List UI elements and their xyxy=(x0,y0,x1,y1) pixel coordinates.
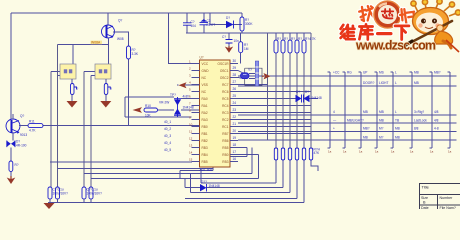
svg-text:11: 11 xyxy=(189,129,192,133)
wire D1 leads xyxy=(210,24,242,26)
svg-text:?: ? xyxy=(77,87,79,91)
svg-text:RB3: RB3 xyxy=(222,160,228,164)
svg-text:14: 14 xyxy=(189,150,193,154)
svg-text:R10: R10 xyxy=(145,104,151,108)
wire rbank col3 xyxy=(289,53,291,148)
svg-text:RC3: RC3 xyxy=(222,111,229,115)
svg-text:MB: MB xyxy=(414,81,419,85)
wire diode D8 line xyxy=(185,160,283,188)
wire bottom wrap d xyxy=(84,148,252,174)
power arrow right xyxy=(262,73,271,79)
pin 5 left NC xyxy=(189,87,207,94)
svg-text:21: 21 xyxy=(233,122,237,126)
svg-text:W08A: W08A xyxy=(91,41,101,45)
wire VDD drop to IC pin1 xyxy=(169,13,200,63)
svg-text:18: 18 xyxy=(233,143,237,147)
op-amp U1 main MCU xyxy=(200,60,231,167)
svg-text:R?4.7K: R?4.7K xyxy=(305,37,317,41)
wire pin11 right xyxy=(238,133,311,135)
pin 30 right OSC1R xyxy=(218,59,238,66)
svg-text:3.3K: 3.3K xyxy=(132,52,139,56)
svg-text:40_3: 40_3 xyxy=(164,134,171,138)
wire bottom wrap c xyxy=(58,168,214,170)
svg-text:RB1: RB1 xyxy=(202,132,208,136)
svg-text:ADT 508: ADT 508 xyxy=(200,168,213,172)
pin 8 left RA2 xyxy=(189,108,208,115)
svg-text:27: 27 xyxy=(233,80,237,84)
svg-text:NC: NC xyxy=(202,90,207,94)
pin 18 right RB5 xyxy=(222,143,238,150)
diode D5 xyxy=(177,97,179,117)
capacitor bank C12-C17 xyxy=(274,148,320,161)
capacitor C9 xyxy=(56,187,60,199)
svg-text:RC7: RC7 xyxy=(222,83,229,87)
svg-text:1a: 1a xyxy=(359,150,363,154)
svg-text:10K: 10K xyxy=(145,114,152,118)
pin 23 right RC3 xyxy=(222,108,238,115)
title block frame xyxy=(420,184,460,211)
svg-text:RC1: RC1 xyxy=(222,125,229,129)
mascot pen xyxy=(406,21,452,45)
svg-text:Q?: Q? xyxy=(118,19,122,23)
svg-text:RB3: RB3 xyxy=(202,146,208,150)
pin 22 right RC2 xyxy=(222,115,238,122)
logo char xin xyxy=(382,9,393,18)
wire MCLR loop left xyxy=(124,97,126,117)
pin 21 right RC1 xyxy=(222,122,238,129)
svg-text:L: L xyxy=(395,71,397,75)
wire matrix row pin4 xyxy=(238,85,457,87)
svg-text:RC5: RC5 xyxy=(222,97,229,101)
power arrow left MCLR xyxy=(133,107,143,113)
svg-text:?: ? xyxy=(110,87,112,91)
svg-text:LIGHT: LIGHT xyxy=(379,81,388,85)
wire MCLR loop top xyxy=(125,96,174,98)
logo ring xyxy=(376,3,399,26)
svg-text:9013: 9013 xyxy=(20,133,27,137)
svg-text:Size: Size xyxy=(421,196,428,200)
wire C2 column xyxy=(186,13,188,33)
wire cap3 drop xyxy=(191,160,291,193)
wire matrix column x412 xyxy=(410,72,413,148)
resistor R10 xyxy=(144,108,158,112)
svg-text:RC2: RC2 xyxy=(222,118,229,122)
inductor L2 below box2 xyxy=(105,79,107,84)
svg-text:4/8: 4/8 xyxy=(434,119,439,123)
pin 14 left RB4 xyxy=(189,150,208,157)
diode D6 xyxy=(174,109,181,115)
wire cap4 drop xyxy=(185,160,297,199)
svg-text:Number: Number xyxy=(440,196,454,200)
wire matrix row D xyxy=(238,139,457,141)
wire D1 top tap xyxy=(209,13,211,24)
svg-text:17: 17 xyxy=(233,150,237,154)
svg-text:RA1: RA1 xyxy=(202,104,208,108)
svg-text:VR-2W: VR-2W xyxy=(159,101,169,105)
capacitor C11 xyxy=(89,187,93,199)
wire rbank col4 xyxy=(296,53,298,148)
svg-text:RA3: RA3 xyxy=(202,118,208,122)
pin 25 right RC5 xyxy=(222,94,238,101)
capacitor C4 10n xyxy=(226,40,233,44)
svg-text:28: 28 xyxy=(233,73,237,77)
svg-text:4.7K: 4.7K xyxy=(29,129,36,133)
svg-text:DOOR?: DOOR? xyxy=(363,81,375,85)
pin 12 left RB2 xyxy=(189,136,208,143)
wire matrix column x393 xyxy=(391,72,394,148)
svg-text:NC: NC xyxy=(202,76,207,80)
mascot cheeks xyxy=(418,23,422,27)
svg-text:1a: 1a xyxy=(343,150,347,154)
wire matrix column x361 xyxy=(359,72,362,148)
wire pin7 right xyxy=(238,105,311,107)
svg-text:D?: D? xyxy=(226,16,230,20)
mascot eyes xyxy=(421,19,426,24)
svg-text:1a: 1a xyxy=(430,150,434,154)
capacitor C10 xyxy=(82,187,86,199)
svg-text:104: 104 xyxy=(191,24,197,28)
wire box1 left stub A xyxy=(51,71,60,73)
svg-text:M?: M? xyxy=(379,136,384,140)
svg-text:MB/LIGHT?: MB/LIGHT? xyxy=(347,119,364,123)
wire MCLR loop bottom xyxy=(125,116,192,118)
wire cap1 drop xyxy=(201,160,276,183)
wire left rail down to Q2 xyxy=(10,13,12,119)
wire box2 top feed xyxy=(108,39,110,65)
logo text weiku xyxy=(341,24,409,39)
logo char yi xyxy=(378,31,391,36)
wire resonator frame xyxy=(249,61,264,86)
pin 11 left RB1 xyxy=(189,129,208,136)
svg-text:4-8: 4-8 xyxy=(434,127,439,131)
svg-text:29: 29 xyxy=(233,66,237,70)
wire matrix row A xyxy=(238,114,457,116)
svg-text:8/8: 8/8 xyxy=(414,127,419,131)
wire column x91 to cap C11 xyxy=(90,76,92,188)
ceramic filter Z1 xyxy=(255,61,258,86)
svg-text:MB: MB xyxy=(395,127,400,131)
mascot mouth xyxy=(425,27,433,29)
pin 24 right RC4 xyxy=(222,101,238,108)
pin 29 right OSC1 xyxy=(220,66,238,73)
pin 13 left RB3 xyxy=(189,143,208,150)
svg-text:10n: 10n xyxy=(234,39,240,43)
svg-text:R?: R? xyxy=(277,37,281,41)
svg-text:1a: 1a xyxy=(448,150,452,154)
pin 26 right RC6 xyxy=(222,87,238,94)
svg-text:RC6: RC6 xyxy=(222,90,229,94)
wire column x57.5 to cap C9 xyxy=(57,44,59,187)
pin 3 left NC xyxy=(189,73,207,80)
wire top supply bus xyxy=(11,12,242,14)
capacitor C3 xyxy=(200,22,209,24)
wire column x84 to cap C10 xyxy=(83,72,85,188)
svg-text:26: 26 xyxy=(233,87,237,91)
diode D10 xyxy=(304,95,310,103)
svg-text:RB7: RB7 xyxy=(222,132,228,136)
svg-text:RA0: RA0 xyxy=(202,97,208,101)
svg-text:File Nam?: File Nam? xyxy=(440,206,456,209)
wire matrix row pin3 xyxy=(238,75,457,77)
wire Q1 collector drop from bus xyxy=(107,13,109,25)
wire crystal top xyxy=(238,71,244,74)
mascot body xyxy=(435,31,453,44)
pin 2 left GND xyxy=(189,66,209,73)
wire rbank col2 xyxy=(282,53,284,148)
svg-text:RC4: RC4 xyxy=(222,104,229,108)
wire matrix column x330 xyxy=(328,72,331,148)
transistor Q1 xyxy=(102,25,115,38)
pin 27 right RC7 xyxy=(222,80,238,87)
pin 19 right RB6 xyxy=(222,136,238,143)
svg-text:www.dzsc.com: www.dzsc.com xyxy=(355,39,436,53)
svg-text:300K: 300K xyxy=(245,22,253,26)
mascot crown spikes xyxy=(411,0,460,16)
wire C3 column xyxy=(203,13,205,33)
wire R5 column xyxy=(240,33,242,64)
svg-text:RECT: RECT xyxy=(207,23,216,27)
inductor L1 below box1 xyxy=(71,79,73,84)
svg-text:R?: R? xyxy=(284,37,288,41)
svg-text:16: 16 xyxy=(233,157,237,161)
wire Q1 emitter resistor column xyxy=(128,59,130,126)
svg-text:OSC1R: OSC1R xyxy=(218,62,230,66)
svg-text:4/8: 4/8 xyxy=(434,110,439,114)
pin 4 left VSS xyxy=(189,80,208,87)
svg-text:GND: GND xyxy=(202,69,210,73)
wire diode pair to IC pin xyxy=(181,109,199,111)
logo char pian xyxy=(399,7,415,24)
svg-text:40_1: 40_1 xyxy=(164,120,171,124)
svg-text:1N4148: 1N4148 xyxy=(311,96,322,100)
resistor R4 300K xyxy=(240,17,244,31)
wire pin4 right xyxy=(238,84,268,86)
svg-text:1a: 1a xyxy=(410,150,414,154)
mascot face xyxy=(416,13,443,33)
svg-text:Q?: Q? xyxy=(20,114,24,118)
svg-text:20: 20 xyxy=(233,129,237,133)
svg-text:W08: W08 xyxy=(117,37,124,41)
wire matrix column x450 xyxy=(448,72,451,148)
wire rbank feed xyxy=(267,33,269,140)
box U3 xyxy=(60,64,76,79)
resonator Y1 xyxy=(241,73,250,79)
wire column x51 to cap C8 xyxy=(50,72,52,188)
svg-text:TP?: TP? xyxy=(170,93,176,97)
svg-text:+: + xyxy=(333,127,335,131)
pin 17 right RB0 xyxy=(222,150,238,157)
pin 28 right OSC2 xyxy=(220,73,238,80)
diode D9 xyxy=(296,95,302,103)
wire matrix row B xyxy=(238,122,457,124)
resistor R3 3.3K xyxy=(127,46,131,59)
svg-text:L: L xyxy=(395,110,397,114)
power arrow down left xyxy=(7,176,16,184)
svg-text:D?: D? xyxy=(305,90,309,94)
svg-text:C?: C? xyxy=(222,35,226,39)
box U4 xyxy=(95,64,111,79)
wire box1 left stub B xyxy=(58,75,61,77)
svg-text:MB: MB xyxy=(414,71,419,75)
svg-text:TB: TB xyxy=(395,119,399,123)
resistor R5 1M xyxy=(239,42,243,53)
wire VDD arrow stem xyxy=(185,84,199,86)
svg-text:1a: 1a xyxy=(391,150,395,154)
wire C4 tap xyxy=(228,33,230,46)
svg-text:1N4148: 1N4148 xyxy=(209,184,220,188)
power arrow left VDD xyxy=(179,82,187,88)
diode D1 xyxy=(226,21,234,28)
svg-text:+CC: +CC xyxy=(333,71,340,75)
wire bottom wrap b xyxy=(50,161,192,163)
wire R4 column xyxy=(241,13,243,33)
wire pin10 right xyxy=(238,126,311,128)
wire Q2 top xyxy=(12,114,14,119)
wire Q1 emitter to resistor xyxy=(113,32,129,46)
svg-text:12: 12 xyxy=(189,136,193,140)
logo char wei xyxy=(341,25,355,39)
svg-text:RB0: RB0 xyxy=(222,153,228,157)
transistor Q2 xyxy=(6,119,20,133)
wire bottom wrap a2 xyxy=(180,157,213,179)
wire R10 to diode pair xyxy=(158,109,175,111)
logo char ku xyxy=(359,24,372,39)
power arrow down C4 xyxy=(225,46,233,53)
wire matrix column x345 xyxy=(343,72,346,148)
wire bottom wrap a xyxy=(213,148,247,157)
svg-text:UP: UP xyxy=(363,71,367,75)
logo char zhao xyxy=(359,5,375,21)
wire Q2 net to IC RA2 xyxy=(43,125,199,127)
svg-text:RB5: RB5 xyxy=(222,146,228,150)
wire pin8 right xyxy=(238,112,311,114)
svg-text:RB5: RB5 xyxy=(202,160,208,164)
svg-text:VCC: VCC xyxy=(202,62,209,66)
svg-text:1a: 1a xyxy=(328,150,332,154)
svg-text:OSC1: OSC1 xyxy=(220,69,229,73)
svg-text:4: 4 xyxy=(333,110,335,114)
svg-text:MB?: MB? xyxy=(363,127,370,131)
ground symbol GND3 xyxy=(44,203,55,209)
svg-text:MB?: MB? xyxy=(434,71,441,75)
svg-text:47K: 47K xyxy=(314,151,321,155)
svg-text:RA2: RA2 xyxy=(202,111,208,115)
wire rbank supply bus xyxy=(186,32,311,34)
svg-text:40_4: 40_4 xyxy=(164,141,171,145)
wire pin5 right xyxy=(238,91,311,93)
wire matrix column x432 xyxy=(430,72,433,148)
resistor bank R6-R10 xyxy=(274,33,317,53)
mascot hand xyxy=(437,25,443,31)
svg-text:R?: R? xyxy=(291,37,295,41)
wire pin6 right through diodes xyxy=(238,98,318,100)
wire pin9 right xyxy=(238,119,311,121)
wire rbank col6 xyxy=(310,33,312,148)
wire cap6 drop xyxy=(311,160,318,171)
svg-text:R11: R11 xyxy=(29,120,35,124)
svg-text:40_5: 40_5 xyxy=(164,148,171,152)
pin 16 right RB3 xyxy=(222,157,238,164)
svg-text:MS: MS xyxy=(379,71,384,75)
svg-text:R?: R? xyxy=(15,163,19,167)
capacitor C2 xyxy=(183,23,192,25)
svg-text:OSC2: OSC2 xyxy=(220,76,229,80)
wire rbank col1 xyxy=(275,53,277,148)
svg-text:15: 15 xyxy=(189,157,193,161)
svg-text:D??: D?? xyxy=(201,180,207,184)
pin 20 right RB7 xyxy=(222,129,238,136)
svg-text:1a: 1a xyxy=(375,150,379,154)
pin 6 left RA0 xyxy=(189,94,208,101)
svg-text:L: L xyxy=(395,81,397,85)
wire matrix row C xyxy=(238,131,457,133)
wire ground bus bottom xyxy=(48,160,304,203)
svg-text:RG: RG xyxy=(347,71,352,75)
svg-text:19: 19 xyxy=(233,136,237,140)
pin 7 left RA1 xyxy=(189,101,208,108)
svg-text:Title: Title xyxy=(422,185,430,190)
svg-text:U?: U? xyxy=(200,56,204,60)
wire box2 left stub A xyxy=(84,71,95,73)
wire Q1 base rail xyxy=(58,43,109,45)
ground symbol GND2 xyxy=(100,101,111,108)
svg-text:25: 25 xyxy=(233,94,237,98)
pin 15 left RB5 xyxy=(189,157,208,164)
svg-text:RB6: RB6 xyxy=(222,139,228,143)
svg-text:RB2: RB2 xyxy=(202,139,208,143)
svg-text:100u/16V?: 100u/16V? xyxy=(87,192,103,196)
svg-text:22: 22 xyxy=(233,115,237,119)
wire rbank col5 xyxy=(303,53,305,148)
svg-text:R?: R? xyxy=(298,37,302,41)
pin 1 left VCC xyxy=(189,59,209,66)
mascot leg xyxy=(443,41,451,48)
wire matrix column x377 xyxy=(375,72,378,148)
resistor R12 xyxy=(9,161,13,172)
svg-text:40_2: 40_2 xyxy=(164,127,171,131)
svg-text:VSS: VSS xyxy=(202,83,208,87)
resistor R11 xyxy=(19,125,28,127)
pin 9 left RA3 xyxy=(189,115,208,122)
svg-text:MB: MB xyxy=(363,110,368,114)
svg-text:Y?: Y? xyxy=(248,68,252,72)
wire box1 top feed xyxy=(72,44,74,64)
diode pair D3 bidirectional xyxy=(12,133,14,141)
svg-text:RB4: RB4 xyxy=(202,153,208,157)
ground symbol GND1 xyxy=(67,101,78,108)
svg-text:MB: MB xyxy=(395,136,400,140)
pin 10 left RB0 xyxy=(189,122,208,129)
svg-text:23: 23 xyxy=(233,108,237,112)
svg-text:MB: MB xyxy=(379,119,384,123)
svg-text:RB0: RB0 xyxy=(202,125,208,129)
svg-text:1M: 1M xyxy=(244,47,249,51)
wire bottom wrap e xyxy=(91,155,259,179)
svg-text:10: 10 xyxy=(189,122,193,126)
svg-text:4R-100: 4R-100 xyxy=(16,144,27,148)
svg-text:M?: M? xyxy=(379,127,384,131)
wire crystal bottom xyxy=(238,78,244,79)
svg-text:Date: Date xyxy=(421,206,429,209)
svg-text:24: 24 xyxy=(233,101,237,105)
svg-text:100u/16V?: 100u/16V? xyxy=(53,192,69,196)
capacitor C8 xyxy=(48,187,52,199)
svg-text:3=Rig?: 3=Rig? xyxy=(414,110,424,114)
svg-text:30: 30 xyxy=(233,59,237,63)
svg-text:D?: D? xyxy=(296,90,300,94)
svg-text:MB: MB xyxy=(363,136,368,140)
svg-text:13: 13 xyxy=(189,143,193,147)
